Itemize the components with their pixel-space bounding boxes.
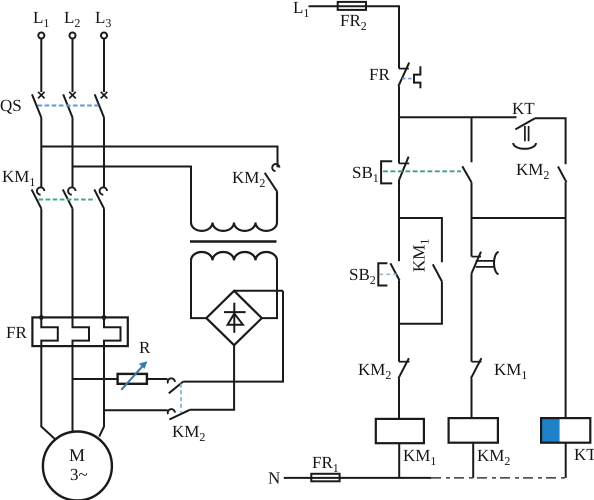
wire SB2 to node C xyxy=(398,280,400,361)
terminal circle L3 xyxy=(101,33,107,39)
wire L2 QS to KM1 xyxy=(72,118,74,188)
wire node A to middle column xyxy=(471,117,473,162)
contact KM2 NC interlock xyxy=(399,361,410,363)
svg-text:KT: KT xyxy=(574,445,594,464)
switch QS pole 3 blade xyxy=(95,94,104,117)
terminal L1 control label xyxy=(293,0,309,20)
svg-text:QS: QS xyxy=(0,96,22,115)
self-hold branch bottom wire xyxy=(399,281,442,323)
wire L1 to fuse FR2 xyxy=(309,5,338,7)
contactor KM2 primary contact xyxy=(272,164,279,171)
contact SB1 linked NO xyxy=(462,166,471,182)
terminal circle L1 xyxy=(38,33,44,39)
wire secondary left to bridge xyxy=(191,260,206,318)
wire rail node A right xyxy=(399,116,517,118)
wire fuse to main column xyxy=(366,6,399,68)
svg-text:FR: FR xyxy=(369,65,390,84)
contactor KM2 brake pole lower xyxy=(168,409,175,414)
wire KM1 to FR pole3 xyxy=(103,209,105,318)
wire branch to KM2 primary contact xyxy=(41,147,277,168)
wire lower pole to DC- xyxy=(190,345,234,410)
junction dot FR lead1 xyxy=(39,315,44,320)
terminal L2 label xyxy=(64,8,80,30)
wire to KM2 coil xyxy=(471,378,473,418)
time relay contact KT (NC delayed) xyxy=(515,118,535,129)
junction dot FR lead3 xyxy=(102,315,107,320)
wire FR to motor lead1 xyxy=(41,346,54,439)
switch QS pole 2 x-contact xyxy=(69,92,76,99)
contactor KM1 pole 3 xyxy=(100,187,107,194)
transformer primary winding xyxy=(191,191,277,231)
terminal N label xyxy=(268,469,280,488)
special contact electromagnetic xyxy=(472,256,482,258)
svg-text:M: M xyxy=(69,445,85,465)
label FR xyxy=(6,323,27,342)
wire middle column to right column xyxy=(472,217,566,219)
wire to KM1 coil xyxy=(398,378,400,419)
bridge diode xyxy=(233,303,235,333)
wire L2 down to QS xyxy=(72,39,74,92)
fuse FR1 xyxy=(311,474,339,482)
wire FR to motor lead2 xyxy=(72,346,74,432)
contactor KM2 brake pole upper xyxy=(168,378,175,383)
contact KM1 self-hold xyxy=(433,264,442,281)
motor M xyxy=(43,432,112,500)
wire L1 QS to KM1 xyxy=(40,118,42,188)
wire L1 down to QS xyxy=(40,39,42,92)
stop button SB1 (NC) xyxy=(398,117,400,163)
coil KM2 xyxy=(449,418,498,443)
label QS xyxy=(0,96,22,115)
switch QS pole 1 x-contact xyxy=(38,92,45,99)
label KM1 xyxy=(2,167,35,189)
label KM2 primary xyxy=(232,168,265,190)
resistor R wire from L2 lead xyxy=(73,378,118,380)
contactor KM1 pole 2 xyxy=(68,187,75,194)
resistor R body xyxy=(118,374,147,384)
terminal L1 label xyxy=(33,8,49,30)
switch QS pole 3 x-contact xyxy=(101,92,108,99)
wire lower brake wire from L3 lead xyxy=(104,409,168,411)
wire KM2 aux to KT coil xyxy=(565,182,567,418)
KM2 brake linkage dashed xyxy=(180,384,182,413)
wire upper pole to DC+ xyxy=(183,291,283,382)
wire KT to right column xyxy=(535,118,566,164)
wire bridge DC+ xyxy=(234,290,283,292)
bottom rail solid xyxy=(340,477,431,479)
terminal L3 label xyxy=(95,8,111,30)
resistor R arrow xyxy=(121,364,144,390)
wire FR contact to node A xyxy=(398,86,400,117)
coil KT xyxy=(542,419,590,443)
wire R to KM2 contact xyxy=(147,378,168,380)
wire to special contact xyxy=(471,182,473,256)
bottom rail faint dashed xyxy=(431,477,566,479)
FR heater element 3 xyxy=(104,317,121,346)
FR heater element 2 xyxy=(73,317,90,346)
wire special contact to KM1 NC xyxy=(471,273,473,361)
wire L3 down to QS xyxy=(103,39,105,92)
coil KM1 xyxy=(376,419,424,443)
KM1 linkage dashed xyxy=(39,199,96,201)
contact KM1 NC interlock xyxy=(472,361,482,363)
wire branch to transformer primary xyxy=(73,167,192,223)
label KM2 brake xyxy=(172,422,205,444)
start button SB2 (NO) xyxy=(398,218,400,261)
wire KM1 to FR pole2 xyxy=(72,209,74,318)
svg-text:FR: FR xyxy=(6,323,27,342)
label R xyxy=(139,338,151,357)
QS linkage dashed xyxy=(38,105,99,107)
self-hold branch top wire xyxy=(399,218,442,262)
bridge rectifier diamond xyxy=(206,291,261,345)
fuse FR2 xyxy=(338,2,366,10)
wire secondary right to bridge xyxy=(262,260,277,318)
wire FR to motor lead3 xyxy=(99,346,104,437)
terminal circle L2 xyxy=(70,33,76,39)
wire L3 QS to KM1 xyxy=(103,118,105,188)
FR heater element 1 xyxy=(41,317,58,346)
switch QS pole 1 blade xyxy=(32,94,41,117)
svg-text:N: N xyxy=(268,469,280,488)
thermal relay FR box xyxy=(32,317,127,346)
wire KM1 to FR pole1 xyxy=(40,209,42,318)
svg-text:R: R xyxy=(139,338,151,357)
transformer core xyxy=(190,240,277,243)
svg-text:3~: 3~ xyxy=(70,465,88,484)
transformer secondary winding xyxy=(191,252,277,260)
thermal contact FR xyxy=(399,68,409,70)
contactor contact KM2 aux xyxy=(558,167,567,183)
svg-text:KT: KT xyxy=(512,99,535,118)
wire SB1 to node B xyxy=(398,180,400,218)
switch QS pole 2 blade xyxy=(63,94,72,117)
contactor KM1 pole 1 xyxy=(37,187,44,194)
wire N to fuse FR1 xyxy=(284,477,312,479)
